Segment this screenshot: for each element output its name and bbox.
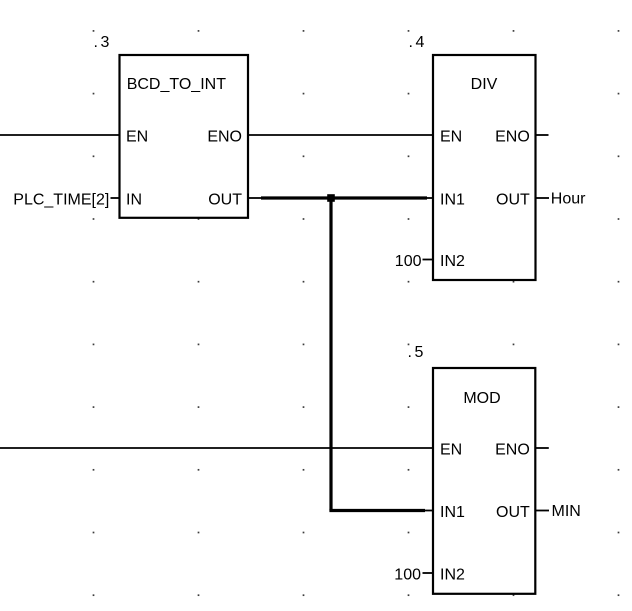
pin DIV OUT [496,192,530,209]
pin BCD_TO_INT ENO [207,129,242,146]
wire: DIV OUT stub to Hour [536,197,550,199]
svg-text:100: 100 [394,567,421,584]
pin DIV IN1 [440,192,465,209]
svg-text:IN1: IN1 [440,504,465,521]
wire: 100 stub to MOD IN2 [423,572,434,574]
svg-text:PLC_TIME[2]: PLC_TIME[2] [13,192,109,209]
pin DIV EN [440,129,462,146]
svg-text:IN: IN [126,192,142,209]
svg-text:.4: .4 [409,34,427,51]
wire: left rail to MOD EN [0,447,433,449]
svg-text:EN: EN [440,442,462,459]
svg-text:ENO: ENO [207,129,242,146]
svg-text:ENO: ENO [495,442,530,459]
block U5 MOD body [433,368,535,594]
block U4 DIV body [433,55,536,280]
svg-text:OUT: OUT [496,504,530,521]
label operand 100 at MOD IN2 [394,567,421,584]
svg-text:IN2: IN2 [440,567,465,584]
wire: left rail to BCD_TO_INT EN [0,134,120,136]
svg-text:.5: .5 [408,344,426,361]
wire: BCD_TO_INT ENO to DIV EN [248,134,433,136]
svg-text:ENO: ENO [495,129,530,146]
svg-text:DIV: DIV [471,76,498,93]
label network .3 [94,34,112,51]
svg-text:MOD: MOD [463,390,500,407]
label MOD title [463,390,500,407]
label network .4 [409,34,427,51]
label operand MIN [552,503,581,520]
wire: MOD ENO output stub [535,447,549,449]
label operand 100 at DIV IN2 [395,253,422,270]
svg-text:BCD_TO_INT: BCD_TO_INT [127,76,227,93]
svg-text:EN: EN [440,129,462,146]
wire: DIV ENO output stub [536,134,549,136]
wire: MOD IN1 thin stub [423,510,433,512]
pin BCD_TO_INT OUT [208,192,242,209]
svg-text:Hour: Hour [551,191,586,208]
label operand Hour [551,191,586,208]
wire: thick net OUT to DIV IN1 [261,196,427,199]
svg-text:100: 100 [395,253,422,270]
label DIV title [471,76,498,93]
svg-text:.3: .3 [94,34,112,51]
svg-text:OUT: OUT [496,192,530,209]
pin MOD ENO [495,442,530,459]
wire: MOD OUT stub to MIN [535,510,549,512]
svg-text:IN2: IN2 [440,253,465,270]
block U3 BCD_TO_INT body [120,55,249,218]
wire: thick horizontal to MOD IN1 [329,509,425,512]
wire: thick vertical drop to MOD IN1 [329,198,332,511]
wire: 100 stub to DIV IN2 [423,259,434,261]
wire: PLC_TIME[2] stub to BCD_TO_INT IN [111,197,120,199]
label operand PLC_TIME[2] [13,192,109,209]
pin DIV ENO [495,129,530,146]
pin BCD_TO_INT IN [126,192,142,209]
pin MOD IN1 [440,504,465,521]
svg-text:MIN: MIN [552,503,581,520]
pin MOD IN2 [440,567,465,584]
pin DIV IN2 [440,253,465,270]
wire: DIV IN1 thin stub [425,197,433,199]
grid dots [93,30,620,596]
pin BCD_TO_INT EN [126,129,148,146]
wire: BCD_TO_INT OUT thin stub [248,197,262,199]
label BCD_TO_INT title [127,76,227,93]
label network .5 [408,344,426,361]
pin MOD EN [440,442,462,459]
svg-text:IN1: IN1 [440,192,465,209]
svg-text:OUT: OUT [208,192,242,209]
pin MOD OUT [496,504,530,521]
svg-text:EN: EN [126,129,148,146]
node: junction at OUT net [327,194,335,202]
